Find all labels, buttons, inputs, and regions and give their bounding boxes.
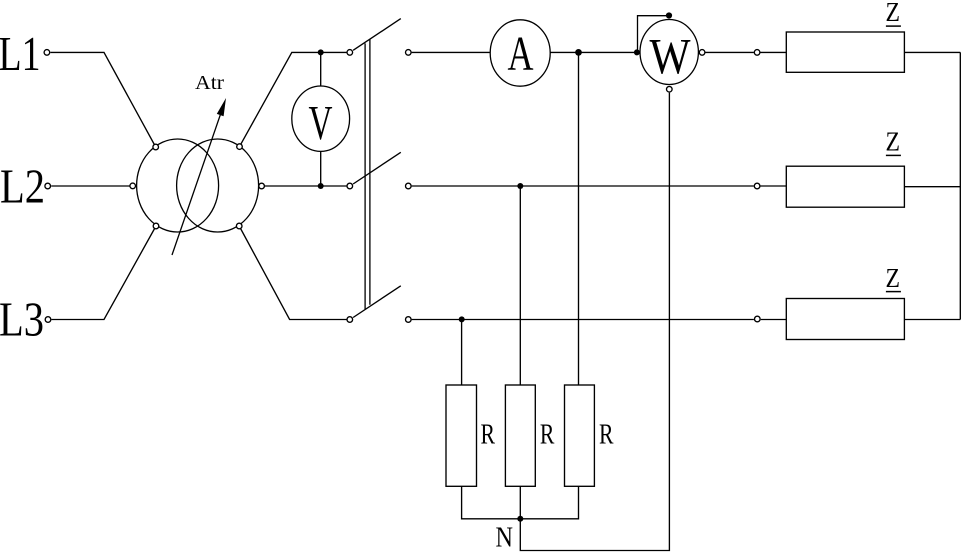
svg-text:V: V <box>309 95 333 150</box>
svg-text:W: W <box>650 30 692 86</box>
svg-text:Z: Z <box>886 0 901 27</box>
svg-text:A: A <box>508 26 534 81</box>
svg-text:R: R <box>599 419 614 450</box>
svg-text:R: R <box>540 419 555 450</box>
svg-text:Z: Z <box>886 127 901 157</box>
svg-text:Z: Z <box>886 263 901 293</box>
svg-text:N: N <box>496 522 514 553</box>
svg-text:Atr: Atr <box>195 72 224 94</box>
svg-text:L3: L3 <box>0 291 44 346</box>
svg-text:L2: L2 <box>0 158 45 213</box>
svg-text:L1: L1 <box>0 26 41 81</box>
svg-text:R: R <box>481 419 496 450</box>
